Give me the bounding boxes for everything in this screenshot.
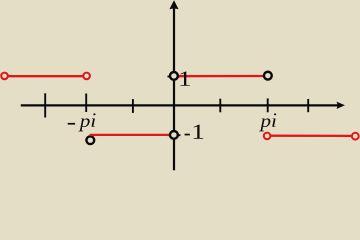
tick pi/2 — [219, 99, 221, 113]
red open circle at (-2pi,1) — [1, 73, 8, 80]
label -pi minus bar — [68, 123, 75, 125]
label pi text — [259, 113, 276, 131]
red open circle at (-pi,1) — [83, 73, 90, 80]
x-axis — [21, 104, 339, 106]
tick -pi — [85, 94, 87, 113]
tick -pi/2 — [132, 99, 134, 113]
black open circle at (pi,1) — [264, 72, 272, 80]
y tick at 1 — [168, 76, 181, 78]
label 1 — [180, 71, 190, 85]
black open circle at (0,1) — [170, 72, 178, 80]
tick 3pi/2 — [307, 99, 309, 112]
red open circle at (2pi,-1) — [352, 133, 359, 140]
black open circle at (0,-1) — [170, 131, 178, 139]
red segment y=-1 left — [90, 134, 174, 136]
y tick at -1 — [168, 134, 181, 136]
red segment y=1 right — [174, 75, 268, 77]
black circle at (-pi,-1) — [86, 136, 94, 144]
red segment y=1 left — [5, 75, 87, 77]
label -pi text — [78, 113, 95, 131]
label -1 digit — [194, 125, 204, 139]
y-axis arrowhead — [169, 0, 178, 9]
label -1 minus bar — [185, 134, 190, 136]
red open circle at (pi,-1) — [264, 133, 271, 140]
tick pi — [267, 98, 269, 112]
y-axis — [173, 8, 175, 171]
red segment y=-1 right — [267, 135, 355, 137]
tick -3pi/2 — [44, 93, 46, 117]
x-axis arrowhead — [336, 102, 345, 109]
